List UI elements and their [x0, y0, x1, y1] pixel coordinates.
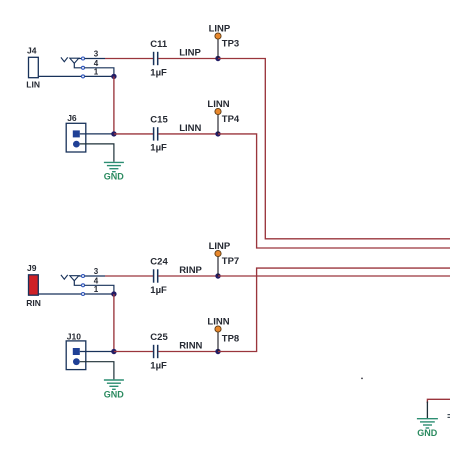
svg-text:C15: C15 — [150, 115, 168, 126]
J4 pin 3 lead — [85, 58, 105, 60]
J4 switch contact V — [61, 57, 68, 61]
connector J6 body — [66, 123, 86, 152]
J9 sleeve wire — [38, 293, 81, 295]
svg-text:LINN: LINN — [207, 99, 229, 110]
J9 pin 4 lead — [85, 285, 114, 294]
test point TP8 lead — [217, 332, 219, 352]
J9 pin 3 circle — [82, 275, 85, 278]
svg-text:LINP: LINP — [179, 48, 201, 59]
J6 pin 2 lead to ground — [80, 144, 114, 162]
test point TP7 lead — [217, 256, 219, 276]
svg-text:C24: C24 — [150, 257, 168, 268]
clipped component pins at right edge — [448, 415, 450, 418]
wire J9 to RINN row — [113, 294, 115, 352]
junction node RINP at TP7 — [215, 273, 220, 278]
svg-text:LINN: LINN — [207, 317, 229, 328]
wire C15 to TP4 node — [158, 133, 218, 135]
wire RINP to right edge — [218, 275, 450, 277]
wire C25 to TP8 node — [158, 351, 218, 353]
svg-text:3: 3 — [94, 267, 99, 276]
svg-text:1µF: 1µF — [150, 360, 167, 371]
junction node LINP at TP3 — [215, 56, 220, 61]
svg-text:J4: J4 — [27, 46, 37, 56]
J9 tip contact triangle — [70, 276, 79, 281]
J9 switch contact V — [61, 275, 68, 279]
svg-text:TP4: TP4 — [222, 114, 240, 125]
test point TP3 pad — [215, 33, 221, 39]
wire J4 to LINN row — [113, 76, 115, 133]
test point TP4 lead — [217, 114, 219, 134]
J4 pin 1 lead — [85, 75, 114, 77]
ground lead — [426, 402, 428, 419]
connector J10 body — [66, 341, 86, 370]
J6 pin 2 round pad — [73, 141, 80, 148]
svg-text:1µF: 1µF — [150, 143, 167, 154]
J4 pin 3 circle — [82, 57, 85, 60]
svg-text:4: 4 — [94, 59, 99, 68]
J4 pin 3 stub — [79, 58, 82, 60]
J6 pin 1 lead — [80, 133, 112, 135]
svg-text:3: 3 — [94, 49, 99, 58]
junction at J4 pin 1 — [111, 74, 116, 79]
J9 pin 3 stub — [79, 275, 82, 277]
capacitor C25 — [154, 345, 158, 358]
J9 pin 1 circle — [82, 293, 85, 296]
wire J9 pin3 to C24 — [105, 275, 153, 277]
test point TP7 pad — [215, 250, 221, 256]
svg-text:TP3: TP3 — [222, 38, 239, 49]
connector J4 body — [29, 57, 39, 77]
junction at J6 on LINN wire — [111, 131, 116, 136]
J4 tip contact stem — [74, 63, 81, 68]
ground symbol below J10 — [104, 380, 124, 389]
svg-text:GND: GND — [104, 389, 125, 399]
J9 pin 1 lead — [85, 293, 114, 295]
capacitor C11 — [154, 52, 158, 65]
test point TP4 pad — [215, 108, 221, 114]
stray dot artifact — [361, 378, 363, 380]
J4 tip contact triangle — [70, 58, 79, 63]
capacitor C15 — [154, 127, 158, 140]
wire J4 pin3 to C11 — [105, 58, 153, 60]
J4 pin 1 circle — [82, 75, 85, 78]
svg-text:4: 4 — [94, 276, 99, 285]
J10 pin 2 round pad — [73, 358, 80, 365]
wire C11 to TP3 node — [158, 58, 218, 60]
wire from right edge to ground — [427, 399, 450, 403]
wire LINP to right edge — [218, 59, 450, 239]
ground symbol below J6 — [104, 162, 124, 171]
junction node RINN at TP8 — [215, 349, 220, 354]
ground symbol bottom right — [417, 419, 438, 428]
svg-text:GND: GND — [417, 428, 438, 438]
svg-text:J9: J9 — [27, 263, 37, 273]
connector J9 body — [29, 275, 39, 295]
svg-text:C11: C11 — [150, 39, 168, 50]
svg-text:1: 1 — [94, 285, 99, 294]
svg-text:RINP: RINP — [179, 265, 202, 276]
test point TP3 lead — [217, 39, 219, 59]
J10 pin 1 lead — [80, 351, 112, 353]
svg-text:TP7: TP7 — [222, 256, 239, 267]
J10 pin 2 lead to ground — [80, 362, 114, 380]
wire C24 to TP7 node — [158, 275, 218, 277]
junction at J9 pin 1 — [111, 291, 116, 296]
J9 pin 4 circle — [82, 284, 85, 287]
J9 tip contact stem — [74, 281, 81, 286]
wire RINN riser to right edge — [218, 268, 450, 351]
svg-text:1µF: 1µF — [150, 285, 167, 296]
svg-text:LINP: LINP — [209, 24, 231, 35]
svg-text:RIN: RIN — [26, 298, 41, 308]
J10 pin 1 square pad — [73, 348, 80, 355]
svg-text:GND: GND — [104, 172, 125, 182]
svg-text:1µF: 1µF — [150, 67, 167, 78]
J9 pin 3 lead — [85, 275, 105, 277]
wire J6 junction to C15 — [114, 133, 153, 135]
wire J10 junction to C25 — [114, 351, 153, 353]
junction node LINN at TP4 — [215, 131, 220, 136]
J6 pin 1 square pad — [73, 130, 80, 137]
capacitor C24 — [154, 269, 158, 282]
svg-text:C25: C25 — [150, 332, 168, 343]
svg-text:J6: J6 — [67, 113, 77, 123]
svg-text:J10: J10 — [67, 332, 81, 342]
J4 pin 4 lead — [85, 68, 114, 77]
svg-text:RINN: RINN — [179, 341, 202, 352]
svg-text:1: 1 — [94, 68, 99, 77]
J4 sleeve wire — [38, 75, 81, 77]
test point TP8 pad — [215, 326, 221, 332]
svg-text:LINN: LINN — [179, 123, 201, 134]
svg-text:LIN: LIN — [26, 80, 40, 90]
svg-text:LINP: LINP — [209, 241, 231, 252]
svg-text:TP8: TP8 — [222, 333, 239, 344]
J4 pin 4 circle — [82, 66, 85, 69]
wire LINN to right edge — [218, 134, 450, 248]
junction at J10 on RINN wire — [111, 349, 116, 354]
